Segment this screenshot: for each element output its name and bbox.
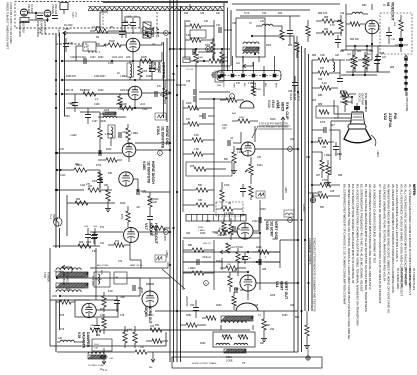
bottom resistor chain [90,328,101,332]
svg-text:270K: 270K [322,179,328,182]
svg-text:470K: 470K [108,62,114,65]
bottom row res2 [206,316,216,320]
tube V15A 6CS7 AFC [126,38,140,52]
svg-text:+320V: +320V [163,234,166,241]
lowmid c1 [196,259,198,265]
svg-text:L101: L101 [94,344,100,346]
rail y49 mid [170,48,230,50]
svg-text:47K: 47K [232,270,237,273]
svg-text:1M: 1M [228,203,231,205]
video out dashed enclosure [380,13,412,54]
svg-text:V17: V17 [144,223,148,230]
svg-text:R109: R109 [98,90,104,92]
svg-text:C35: C35 [186,81,191,83]
svg-text:ION TRAP: ION TRAP [361,93,364,105]
svg-text:CIRCLED LETTERS INDICATE ALIGN: CIRCLED LETTERS INDICATE ALIGNMENT AND T… [313,238,317,312]
svg-text:R110: R110 [70,104,76,106]
vert output transformer T4 [221,316,253,321]
svg-text:47K: 47K [157,86,162,88]
svg-text:+BOOST: +BOOST [185,296,189,307]
svg-text:R151: R151 [186,315,192,317]
svg-text:1 MEG: 1 MEG [335,154,342,156]
svg-text:L102: L102 [112,57,118,59]
svg-text:R61: R61 [357,51,362,53]
svg-text:10%: 10% [126,57,131,59]
waveform W1 [157,115,164,118]
svg-text:V16B: V16B [142,161,146,170]
CRT socket wiring extra [340,96,352,98]
svg-text:R104: R104 [98,57,104,59]
svg-text:DAMPER: DAMPER [86,332,90,348]
vert osc dashed box with resistor [216,202,243,216]
svg-text:A7. TOLERANCE OF RESISTORS AND: A7. TOLERANCE OF RESISTORS AND CAPACITOR… [378,184,382,304]
sync clip plate load [249,164,253,175]
mid cap C33 [212,72,214,78]
svg-text:HEIGHT: HEIGHT [218,234,228,237]
horiz osc stabilizer coil [111,127,113,138]
ladder v1 [220,190,224,201]
waveform W4 [284,210,294,217]
svg-text:1 MEG: 1 MEG [237,152,244,154]
svg-text:RED: RED [100,270,102,275]
video out box resistor chain [399,20,403,31]
svg-text:R150: R150 [216,305,222,307]
video out wires [352,26,365,28]
tuner box divider [102,10,104,28]
vert mid res1 [218,230,230,234]
top coax heavy line [103,1,228,3]
peaking coil right [333,62,335,72]
svg-text:5.6K: 5.6K [186,34,191,37]
svg-text:C108: C108 [94,104,100,106]
svg-text:6CS7: 6CS7 [153,62,157,71]
svg-text:R113: R113 [106,149,112,151]
svg-text:FU-1: FU-1 [49,214,52,220]
AGC parts [238,119,250,123]
right field extra4 [318,194,328,198]
svg-text:V1A 6X8: V1A 6X8 [27,4,30,14]
svg-text:47K: 47K [60,148,65,151]
svg-text:470K: 470K [150,226,156,229]
tuner small IF can [60,3,68,10]
svg-text:L31: L31 [140,346,145,349]
ladder r6 [196,203,208,207]
svg-text:120: 120 [100,242,105,245]
svg-text:C102: C102 [80,56,86,59]
top middle resistors [190,24,201,28]
video to crt wire [345,24,347,50]
svg-text:5600: 5600 [80,90,86,92]
svg-text:R107: R107 [100,76,106,78]
horiz ctl res on y94 [83,92,96,96]
svg-text:L101: L101 [118,57,124,59]
yoke lead hatch [88,355,106,359]
width coil box2 [94,272,110,287]
svg-text:HV CAGE: HV CAGE [54,270,64,273]
horiz ctl grid parts [118,96,122,106]
power transformer arrow [62,265,72,269]
svg-text:+16KV: +16KV [376,150,379,158]
video out box caps [386,32,392,34]
svg-text:V HOLD: V HOLD [234,246,243,249]
bottom left arrow cap [100,355,108,359]
svg-text:BRN: BRN [275,83,277,88]
hv cage top line [90,267,168,269]
svg-text:C12: C12 [118,108,123,111]
svg-text:C102 470: C102 470 [70,57,81,59]
svg-text:R51 4700: R51 4700 [176,85,187,87]
wire afc out to bus [145,28,147,33]
svg-text:R96: R96 [338,175,343,177]
svg-text:100K: 100K [198,57,204,59]
top middle caps [192,49,194,55]
svg-text:VIDEO OUT: VIDEO OUT [390,2,394,22]
AFC disc res on rail [140,59,153,63]
svg-text:21ZP4A: 21ZP4A [388,113,393,128]
svg-text:R79: R79 [124,331,129,333]
horiz ctl out wire [142,92,170,94]
svg-text:C31: C31 [216,24,221,27]
tube V12A 6EA8 AGC (half) [240,101,254,108]
mid trimmer box [215,72,224,82]
vert extra r1 [222,222,226,232]
svg-text:2200: 2200 [256,89,262,91]
horiz osc plate parts [126,128,130,140]
tube V19 6AU4GTA damper [82,303,96,317]
vert region resistor right2 [305,325,309,336]
tube V17 horiz output (lower) [142,291,158,307]
svg-text:18K: 18K [104,184,109,187]
svg-text:R109: R109 [64,116,70,118]
ladder r4 [192,152,203,156]
disch coupling [136,189,138,195]
rail y94 [62,93,130,95]
wire braid to afc [121,11,123,31]
svg-text:+125V: +125V [57,28,61,37]
damper right resistors [123,332,127,343]
mid box y49 [190,30,206,38]
cage L box [92,339,112,351]
tube V20B vert osc [237,223,253,239]
svg-text:V12A: V12A [289,93,293,100]
svg-text:6CS7: 6CS7 [151,28,155,37]
AFC top wires [100,11,108,13]
ladder box [186,162,232,176]
svg-text:R105 27K: R105 27K [66,76,77,78]
svg-text:C85 .01: C85 .01 [203,243,211,245]
yoke resistors [222,335,232,339]
AFC pot arrow resistor [108,43,121,47]
svg-text:CHAN SEL: CHAN SEL [39,21,42,34]
svg-text:YEL-GRN: YEL-GRN [91,276,93,286]
svg-text:1000: 1000 [92,181,98,183]
top mid caps2 [287,30,293,32]
CRT V22 21ZP4A kinescope [351,112,365,124]
test point circles [164,31,169,36]
svg-text:12K: 12K [257,156,262,159]
svg-text:1 MEG: 1 MEG [105,133,113,136]
svg-text:C48: C48 [380,53,385,55]
mid vertical wires [182,100,184,212]
tube V15B 6CS7 horiz control [128,86,142,100]
A+ arrow bottom [102,355,106,364]
vert osc coupling [258,217,260,223]
svg-text:R130: R130 [270,119,276,121]
tuner mixer coil box [20,18,29,23]
horiz out cathode net [102,296,106,307]
bottom long box [172,357,322,368]
horiz ctl coil L103 [103,112,116,115]
agc keying box [316,106,338,118]
svg-text:5V4: 5V4 [66,289,71,291]
terminal below wires [253,81,255,93]
video left res arrow [339,20,343,31]
tube V14 lower half [236,303,258,311]
svg-text:1000: 1000 [86,242,92,244]
svg-text:A 6X8 ATR 4-6DT4 T AU 26 CONV: A 6X8 ATR 4-6DT4 T AU 26 CONV [9,2,13,44]
svg-text:RF AMP: RF AMP [30,4,33,13]
svg-text:HORIZ OUTPUT TRANS: HORIZ OUTPUT TRANS [192,362,217,365]
svg-text:R81: R81 [324,29,329,31]
vert mid pot [220,250,228,254]
vert interconnect wire [259,200,261,290]
svg-text:HORIZ: HORIZ [157,62,161,74]
svg-text:R147: R147 [234,289,240,291]
svg-text:L103: L103 [140,104,146,106]
svg-text:.0039: .0039 [100,121,106,123]
svg-text:ALIGNMENT POINTS: ALIGNMENT POINTS [308,238,312,265]
svg-text:L103: L103 [104,110,110,112]
lowmid r1 [192,248,204,252]
CRT 2nd anode lead [371,135,376,146]
svg-text:.047: .047 [222,128,227,130]
svg-text:FOCUS: FOCUS [358,93,361,102]
svg-text:HORIZ DISCH: HORIZ DISCH [151,161,155,184]
svg-text:A+: A+ [149,365,153,369]
video cathode cap [374,60,380,62]
svg-text:R62: R62 [369,51,374,53]
rail y80 [62,79,175,81]
resistor field r3 [320,86,331,90]
svg-text:.047: .047 [136,207,141,209]
svg-text:47K: 47K [236,82,241,85]
svg-text:R75: R75 [190,166,195,168]
braid drop to bus [223,3,225,71]
right mid wires [312,99,316,101]
svg-text:6.8K: 6.8K [92,251,97,253]
svg-text:R143: R143 [206,257,212,259]
svg-text:.001: .001 [128,142,133,145]
rail 153 [57,152,122,154]
vert region resistor right [262,319,266,330]
svg-text:C94: C94 [270,329,275,331]
svg-text:250MA: 250MA [52,214,55,222]
IF can outline [236,18,265,57]
bottom row cap [193,307,199,309]
svg-text:VERT OUT: VERT OUT [284,281,288,300]
svg-text:C110: C110 [142,109,148,111]
vert section bus wires [304,48,306,311]
terminal drop wires [221,56,223,73]
strip right resistor [295,42,299,52]
svg-text:C114: C114 [80,185,86,187]
svg-text:V19: V19 [77,332,81,338]
svg-text:56K: 56K [266,325,271,327]
bus junction dots [169,32,171,34]
svg-text:H.V. RECT: H.V. RECT [65,272,69,285]
svg-text:C101: C101 [68,43,74,45]
ladder r5 [196,188,208,192]
svg-text:C105: C105 [126,16,132,18]
svg-text:MIXER GRID: MIXER GRID [18,22,21,37]
svg-text:R72: R72 [115,241,120,243]
svg-text:R134: R134 [257,165,263,167]
svg-text:R152: R152 [200,343,206,345]
svg-text:R144: R144 [216,261,222,263]
sync clip grid parts [227,140,229,146]
tube V8 video out [365,20,379,34]
svg-text:1 MEG: 1 MEG [324,154,332,157]
vert mid res2 [226,266,237,270]
svg-text:1 MEG: 1 MEG [248,82,256,85]
svg-text:8.2K: 8.2K [322,82,327,85]
svg-text:R77: R77 [100,309,105,311]
svg-text:R40: R40 [186,20,191,23]
resistor R210 [57,169,74,171]
mid top row [183,57,190,63]
svg-text:R89: R89 [318,104,323,106]
svg-text:.047: .047 [122,131,127,134]
svg-text:R66: R66 [79,242,84,244]
svg-text:C92: C92 [190,305,195,307]
disch cathode parts [106,190,110,201]
shielded coax braid band [88,6,224,8]
svg-text:R139: R139 [200,233,206,235]
svg-text:TP-5 HORIZ PLATE: TP-5 HORIZ PLATE [412,268,415,291]
video lower rail [341,49,372,51]
svg-text:V1B 6X8: V1B 6X8 [51,4,54,14]
svg-text:R83: R83 [312,55,317,57]
svg-text:1 MEG: 1 MEG [198,230,205,232]
bottom rail 330 [100,329,250,331]
mid rail y66 [180,65,230,67]
svg-text:R52: R52 [160,95,165,97]
svg-text:A.G.C.: A.G.C. [275,100,279,110]
svg-text:C102: C102 [90,57,96,59]
left bus small cap [63,43,69,45]
damper top boost line [60,295,140,297]
sawtooth network [148,196,152,207]
ps caps C64 C65 [85,234,91,236]
AFC osc coil L102 [130,64,132,78]
svg-text:R91: R91 [155,324,160,327]
mid vert res R44 [194,52,198,63]
svg-text:6.3V: 6.3V [103,370,108,372]
svg-text:A.F.C.: A.F.C. [155,28,159,38]
svg-text:R102: R102 [109,40,115,43]
vert out grid parts [228,276,232,287]
svg-text:C80: C80 [96,335,101,337]
+125V rail arrow [63,31,68,35]
svg-text:8.2K: 8.2K [148,199,153,202]
svg-text:470K: 470K [224,184,230,187]
video out cathode resistors [353,55,357,66]
svg-text:GRN: GRN [233,83,235,88]
svg-text:R140: R140 [198,227,204,229]
svg-text:470K: 470K [320,122,326,124]
svg-text:1/2 6SN7GTB: 1/2 6SN7GTB [147,161,151,183]
svg-text:R1 220K: R1 220K [64,25,73,27]
svg-text:+385V: +385V [165,250,169,258]
svg-text:100K: 100K [120,90,126,92]
svg-text:8.2K: 8.2K [194,134,199,137]
tube V14 vert out [240,275,256,291]
video out lower caps [375,56,381,58]
ps rail y246 [53,245,100,247]
electrolytic chain [405,55,407,96]
svg-text:33K: 33K [108,172,113,175]
terminal strip rounded box [217,71,281,81]
ladder c1 [202,113,204,119]
resistor field r2 [318,71,329,75]
svg-text:C72: C72 [118,261,123,263]
svg-text:1/2 6SN7GTB: 1/2 6SN7GTB [161,126,165,148]
svg-text:4.7K: 4.7K [330,24,335,27]
video cathode resistors [351,58,355,69]
svg-text:220K: 220K [143,35,149,37]
svg-text:PT A: PT A [74,12,77,17]
damper wires [96,309,118,311]
AFC tube cathode wires [132,52,134,61]
vert osc grid net [229,224,233,235]
svg-text:OSC-MIX: OSC-MIX [54,4,57,15]
svg-text:V14: V14 [275,281,279,287]
transformer T2 IF can [243,47,259,51]
horiz osc grid RC [106,158,117,162]
svg-text:FINE TUNING: FINE TUNING [36,21,39,37]
svg-text:C131: C131 [222,125,228,127]
svg-text:R108: R108 [146,76,152,78]
svg-text:R95: R95 [318,192,323,194]
svg-text:TEST: TEST [71,12,73,18]
vert extra c1 [258,259,260,265]
svg-text:TP-3 AGC LINE: TP-3 AGC LINE [404,268,407,286]
yoke plug arrow [243,64,253,68]
tuner caps [37,15,43,17]
video out lower wires [346,45,399,47]
hv wires [127,277,140,279]
svg-text:TP-1 MIXER GRID: TP-1 MIXER GRID [396,268,399,289]
svg-text:R138: R138 [260,209,266,211]
right field wires [339,130,341,160]
horiz hold pot [163,88,167,99]
horiz osc wires [136,149,170,151]
svg-text:A.G.C.: A.G.C. [297,93,301,102]
vert mid cap [242,256,248,258]
svg-text:10K: 10K [227,264,231,266]
AFC vert res R104 [138,66,142,77]
svg-text:47K: 47K [186,118,191,121]
wire hv cage top [57,277,170,279]
bus below transformer [55,300,57,352]
tube V1 tuner osc [20,9,27,16]
ladder r2 [188,122,199,126]
svg-text:12K: 12K [204,20,209,23]
power transformer coils [56,272,88,277]
svg-text:6EA8: 6EA8 [271,100,275,108]
svg-text:2.2 MEG: 2.2 MEG [224,212,234,215]
wires right field [312,151,322,153]
